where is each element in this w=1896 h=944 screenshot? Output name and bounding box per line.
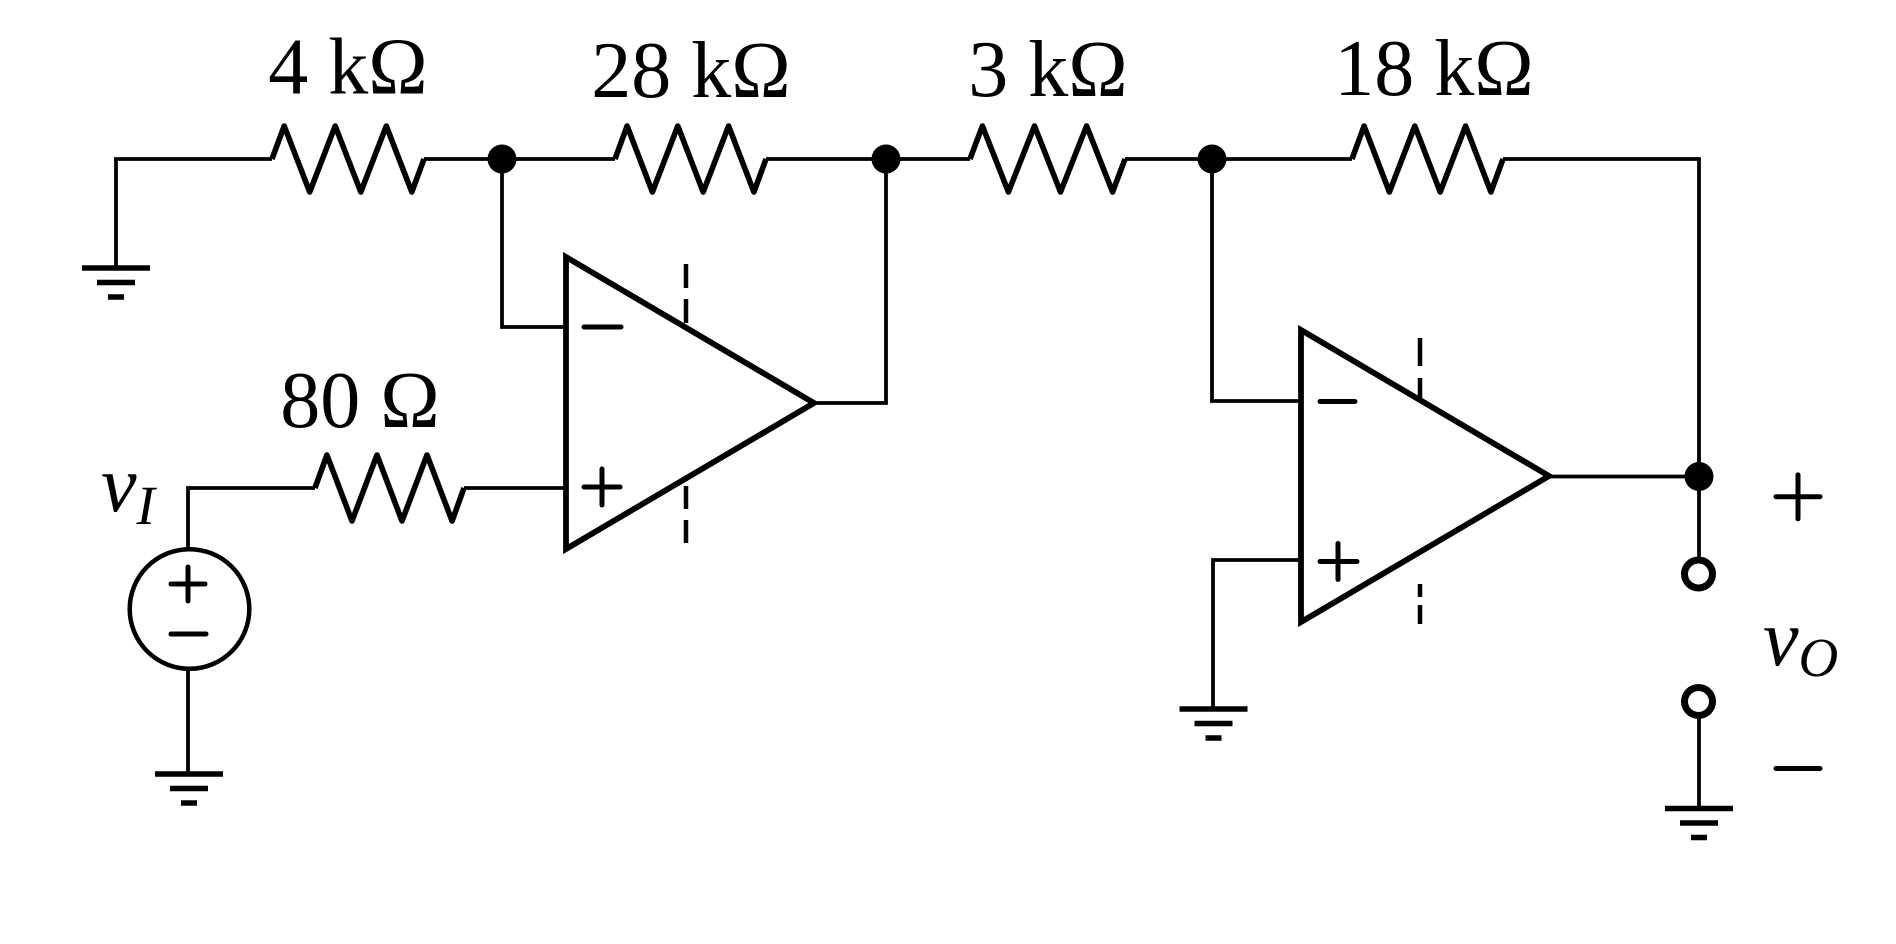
svg-text:4 kΩ: 4 kΩ	[268, 24, 427, 112]
svg-text:80 Ω: 80 Ω	[280, 357, 439, 445]
op-amp U2 triangle	[1301, 330, 1549, 622]
resistor R4 18 kOhm	[1352, 126, 1503, 192]
ground symbol (U2 non-inverting input)	[1180, 709, 1248, 738]
wire: vI source up and right to R5	[188, 488, 315, 550]
op-amp U2 plus (non-inverting) input mark	[1320, 544, 1357, 580]
output plus sign	[1776, 475, 1820, 519]
resistor R5 80 Ohm	[315, 455, 464, 521]
svg-text:vO: vO	[1763, 595, 1838, 688]
wire: R4 to top-right corner down to output node	[1503, 159, 1699, 477]
op-amp U1 triangle	[566, 257, 814, 549]
wire: R2 to node B to R3	[766, 157, 970, 161]
voltage source VS (vI) circle	[130, 549, 250, 669]
wire: op-amp U2 non-inverting input to ground	[1213, 560, 1301, 709]
voltage source minus mark	[171, 632, 206, 637]
svg-text:18 kΩ: 18 kΩ	[1334, 25, 1533, 113]
ground symbol (left, 4 kOhm input)	[82, 159, 150, 297]
node B junction dot	[872, 145, 901, 174]
op-amp U1 minus (inverting) input mark	[584, 325, 621, 330]
op-amp U2 minus (inverting) input mark	[1320, 399, 1355, 404]
node C junction dot	[1198, 145, 1227, 174]
wire: node C down to op-amp U2 inverting input	[1212, 159, 1301, 401]
wire: voltage source to ground	[186, 668, 190, 774]
output minus sign	[1776, 766, 1820, 771]
ground symbol (below vI source)	[155, 774, 223, 803]
resistor R2 28 kOhm	[615, 126, 766, 192]
resistor R3 3 kOhm	[970, 126, 1125, 192]
wire: op-amp U1 output up to node B	[814, 159, 886, 403]
node A junction dot	[488, 145, 517, 174]
svg-text:vI: vI	[101, 441, 158, 536]
op-amp U2 negative supply dashed stub	[1418, 584, 1423, 624]
wire: left ground to R1	[114, 157, 272, 161]
ground symbol (below output terminal)	[1665, 809, 1733, 838]
op-amp U2 positive supply dashed stub	[1418, 338, 1423, 400]
op-amp U1 positive supply dashed stub	[684, 264, 689, 323]
wire: lower output terminal to ground	[1697, 716, 1701, 808]
wire: node D down to output terminal	[1697, 477, 1701, 560]
svg-text:28 kΩ: 28 kΩ	[591, 27, 790, 115]
wire: R3 to node C to R4	[1125, 157, 1352, 161]
op-amp U1 negative supply dashed stub	[684, 486, 689, 543]
wire: R1 to node A to R2	[424, 157, 615, 161]
output terminal circle (-)	[1685, 688, 1713, 716]
node D output junction dot	[1685, 462, 1714, 491]
op-amp U1 plus (non-inverting) input mark	[584, 469, 620, 505]
wire: node A down to op-amp U1 inverting input	[502, 159, 566, 327]
svg-text:3 kΩ: 3 kΩ	[968, 26, 1127, 114]
wire: op-amp U2 output to node D	[1549, 475, 1699, 479]
resistor R1 4 kOhm	[272, 126, 424, 192]
wire: R5 to op-amp U1 non-inverting input	[464, 486, 566, 490]
output terminal circle (+)	[1685, 560, 1713, 588]
voltage source plus mark	[171, 567, 205, 601]
